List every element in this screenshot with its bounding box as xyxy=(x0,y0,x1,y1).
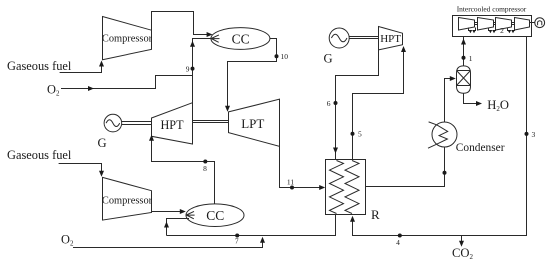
svg-text:Gaseous fuel: Gaseous fuel xyxy=(7,59,72,73)
wire O2 lower xyxy=(73,240,263,248)
svg-text:Gaseous fuel: Gaseous fuel xyxy=(7,148,72,162)
svg-text:7: 7 xyxy=(235,236,239,245)
wire fuel upper into compressor xyxy=(60,64,102,73)
svg-text:HPT: HPT xyxy=(160,118,184,132)
intercooler mark 1 xyxy=(469,28,476,34)
stage 2 xyxy=(478,18,494,31)
arrow into upper CC xyxy=(207,32,213,37)
svg-text:LPT: LPT xyxy=(241,116,264,131)
shaft G to HPT right xyxy=(349,37,378,39)
node 4 xyxy=(398,234,402,238)
wire H2O outlet xyxy=(464,93,478,103)
wire recycle into lower CC xyxy=(167,219,190,236)
stage 4 xyxy=(515,18,530,31)
wire CO2 outlet xyxy=(461,236,463,244)
svg-text:G: G xyxy=(98,136,107,150)
node 8 xyxy=(203,160,207,164)
junction dot above corner xyxy=(443,171,447,175)
stage 1 xyxy=(459,18,475,31)
svg-text:2: 2 xyxy=(500,26,504,35)
injector fan at upper CC inlet xyxy=(211,35,219,42)
wire condenser to separator xyxy=(445,79,452,123)
wire O2 upper xyxy=(61,76,193,89)
node 3 xyxy=(525,132,529,136)
node 9 xyxy=(191,67,195,71)
svg-text:3: 3 xyxy=(532,130,536,139)
svg-text:Compressor: Compressor xyxy=(102,196,153,207)
svg-text:Compressor: Compressor xyxy=(102,34,153,45)
node 5 xyxy=(351,132,355,136)
generator G upper right xyxy=(324,28,350,66)
wire separator to intercooled compressor xyxy=(463,37,465,66)
svg-text:R: R xyxy=(371,207,380,222)
intercooler mark 3 xyxy=(508,28,515,34)
svg-text:4: 4 xyxy=(396,238,400,247)
svg-text:5: 5 xyxy=(358,130,362,139)
R zigzag coil right xyxy=(345,161,359,214)
condenser xyxy=(428,122,505,154)
wire CC upper out to LPT xyxy=(228,39,277,108)
shaft G to HPT xyxy=(122,122,152,125)
wire IC outlet down right side xyxy=(353,37,527,236)
wire fuel lower into compressor xyxy=(59,164,102,173)
wire HPT inlet from lower CC xyxy=(152,139,215,204)
turbine LPT xyxy=(229,99,280,146)
wire duct from upper compressor to CC xyxy=(152,12,208,35)
R zigzag coil left xyxy=(330,161,344,214)
combustion chamber CC upper xyxy=(211,28,270,50)
motor circle xyxy=(535,18,545,28)
node 10 xyxy=(275,54,279,58)
node 7 xyxy=(235,234,239,238)
wire riser HPT exhaust to CC upper xyxy=(193,39,211,103)
intercooled compressor box xyxy=(453,5,532,37)
turbine HPT right xyxy=(379,27,403,50)
svg-text:CC: CC xyxy=(206,208,224,223)
svg-text:Intercooled compressor: Intercooled compressor xyxy=(457,5,527,14)
svg-text:6: 6 xyxy=(327,99,331,108)
node 6 xyxy=(334,101,338,105)
svg-text:HPT: HPT xyxy=(380,33,401,45)
node 1 xyxy=(462,56,466,60)
wire R cold outlet to HPT-right inlet xyxy=(353,50,404,160)
svg-text:11: 11 xyxy=(287,177,294,186)
wire R hot outlet right side to condenser xyxy=(366,147,445,187)
wire HPT-right exhaust into R top xyxy=(336,50,379,160)
compressor upper (fuel compressor) xyxy=(102,17,153,60)
svg-text:8: 8 xyxy=(203,164,207,173)
svg-text:CC: CC xyxy=(232,31,250,46)
wire recycle bottom left segment xyxy=(167,215,336,236)
svg-text:G: G xyxy=(324,52,333,66)
generator G lower xyxy=(98,114,122,150)
wire lower compressor to CC lower xyxy=(152,211,181,213)
intercooler mark 2 xyxy=(489,28,496,34)
recuperator R box xyxy=(326,160,381,223)
injector fan at lower CC inlet xyxy=(186,211,194,218)
svg-text:Condenser: Condenser xyxy=(456,142,505,154)
svg-text:10: 10 xyxy=(281,52,289,61)
stage 3 xyxy=(496,18,512,31)
svg-text:1: 1 xyxy=(469,54,473,63)
svg-text:9: 9 xyxy=(186,64,190,73)
separator vessel xyxy=(457,66,471,93)
combustion chamber CC lower xyxy=(186,204,244,227)
wire LPT exhaust to R xyxy=(280,146,321,187)
shaft HPT to LPT xyxy=(193,121,229,123)
node 11 xyxy=(290,186,294,190)
turbine HPT main xyxy=(152,103,193,144)
compressor lower xyxy=(102,177,153,220)
shaft segments xyxy=(475,23,535,25)
